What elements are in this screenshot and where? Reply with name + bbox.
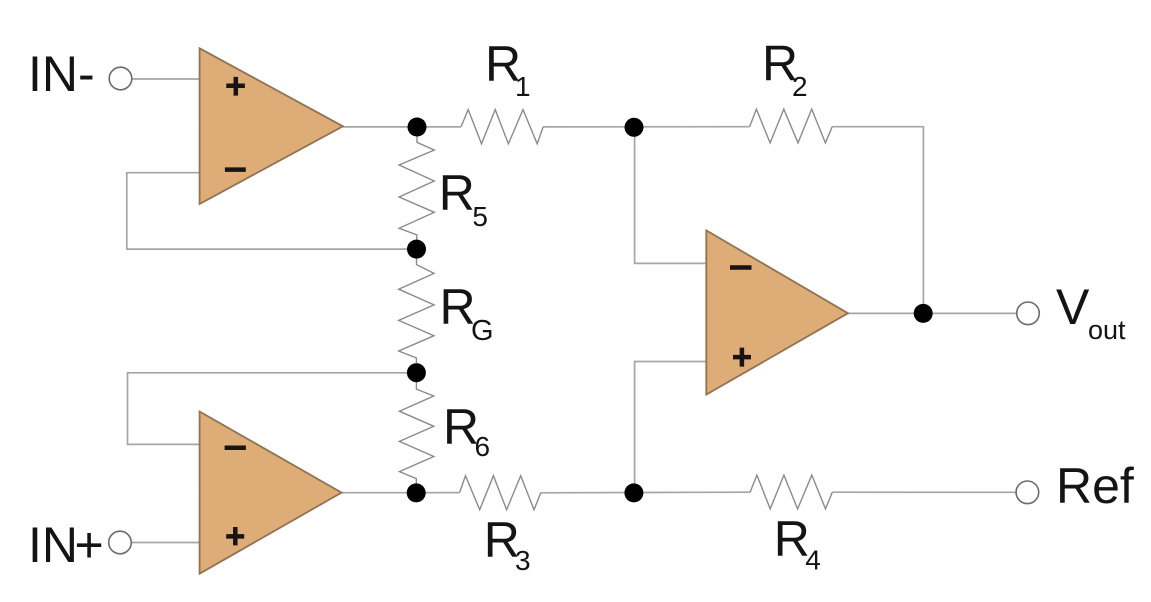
svg-text:G: G — [471, 315, 494, 347]
svg-text:5: 5 — [472, 201, 488, 232]
svg-text:IN-: IN- — [28, 46, 95, 102]
svg-text:V: V — [1056, 279, 1090, 335]
svg-text:3: 3 — [515, 545, 531, 576]
svg-text:Ref: Ref — [1056, 458, 1134, 514]
svg-text:IN: IN — [28, 517, 78, 573]
svg-text:4: 4 — [805, 545, 821, 576]
svg-text:1: 1 — [515, 71, 531, 102]
svg-text:2: 2 — [792, 71, 808, 102]
svg-text:6: 6 — [475, 431, 491, 462]
svg-text:R: R — [439, 165, 475, 221]
svg-text:+: + — [75, 517, 104, 573]
svg-text:out: out — [1088, 315, 1126, 345]
